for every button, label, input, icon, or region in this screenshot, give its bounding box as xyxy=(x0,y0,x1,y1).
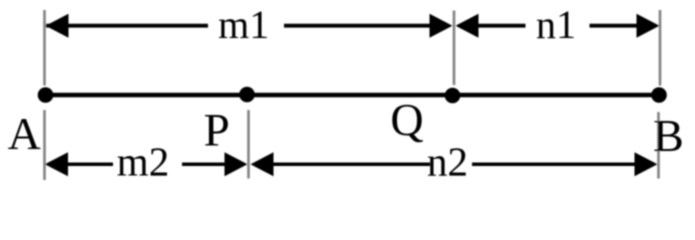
svg-text:n1: n1 xyxy=(536,2,576,47)
svg-text:P: P xyxy=(204,105,230,157)
svg-text:n2: n2 xyxy=(427,139,468,185)
svg-text:Q: Q xyxy=(390,94,423,145)
svg-text:m2: m2 xyxy=(117,139,169,185)
svg-text:B: B xyxy=(653,110,684,161)
svg-text:m1: m1 xyxy=(218,2,269,47)
svg-text:A: A xyxy=(8,108,41,159)
